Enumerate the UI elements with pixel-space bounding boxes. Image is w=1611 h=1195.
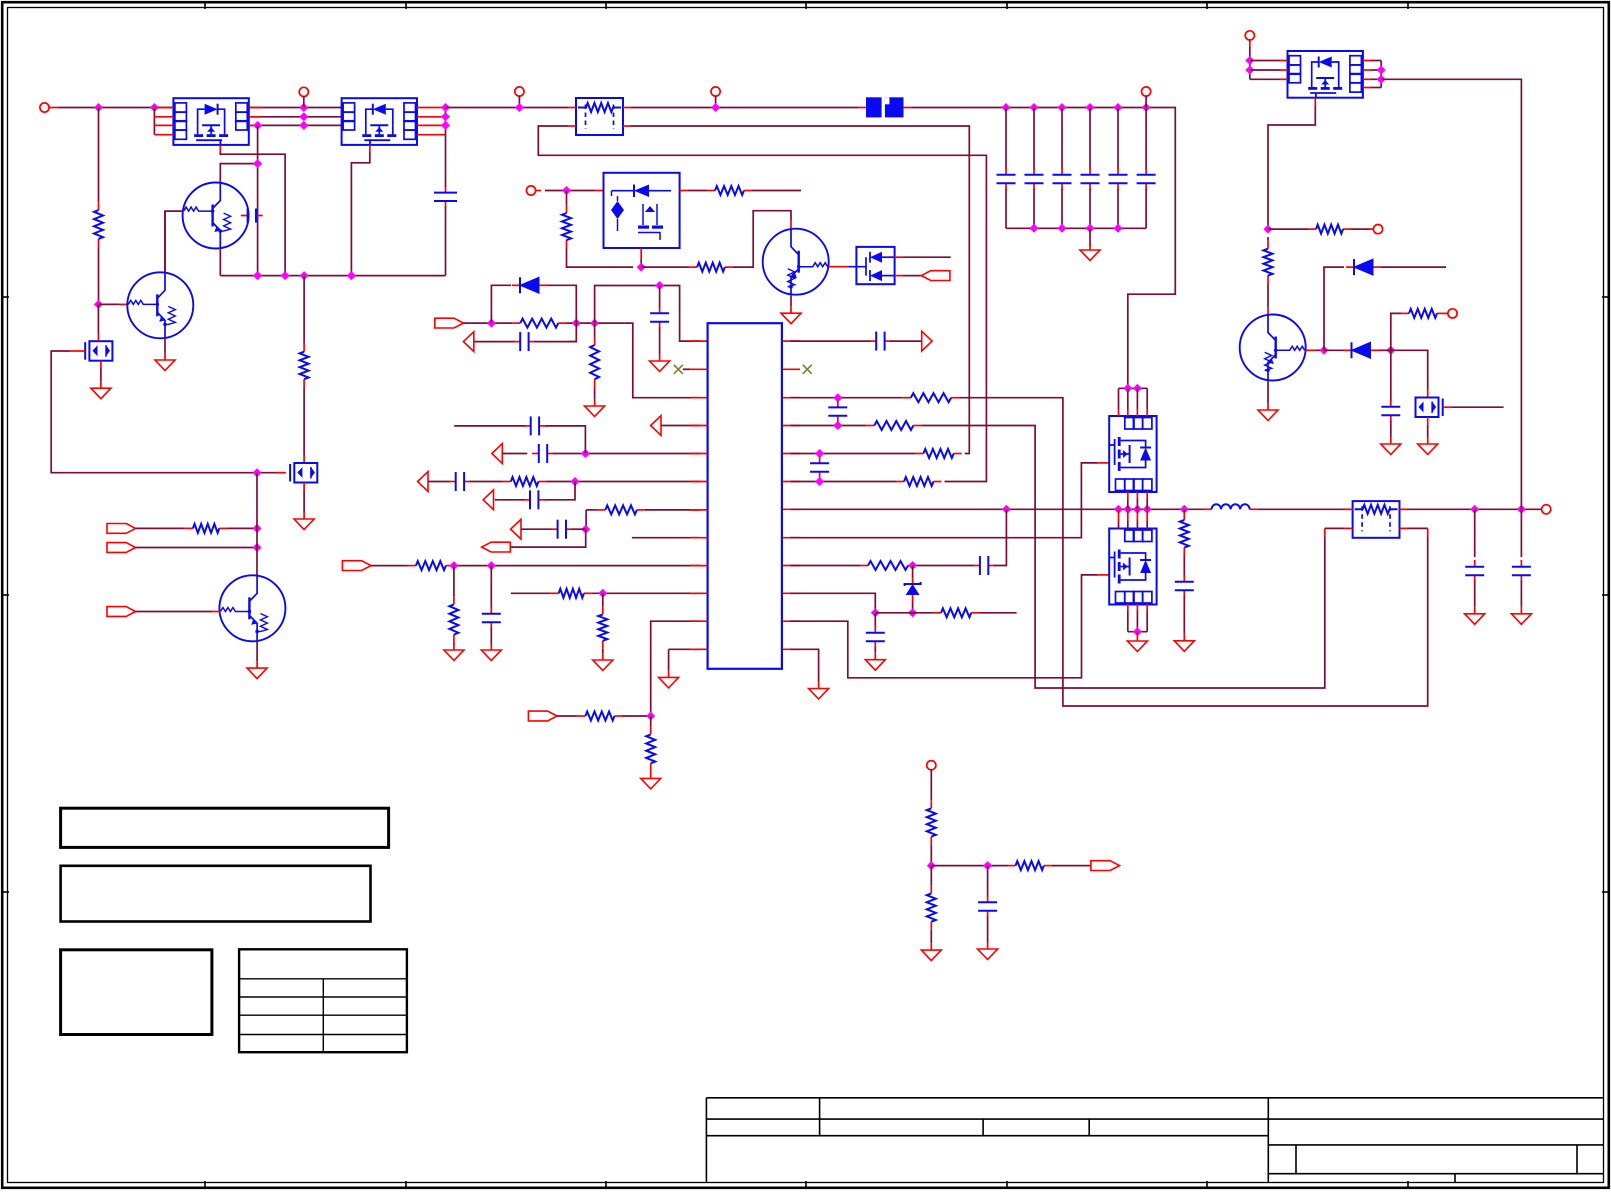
wire P5 to U3 xyxy=(545,190,596,192)
pin stub IC pin9R xyxy=(783,565,800,567)
ground C21 xyxy=(874,653,876,660)
capacitor C1 xyxy=(241,215,248,217)
ground R22 xyxy=(1183,634,1185,641)
revision box 2 xyxy=(61,866,371,922)
junction xyxy=(1002,505,1011,514)
wire P10 stem xyxy=(930,769,932,800)
capacitor C14 xyxy=(523,499,530,501)
pin stub U5 top xyxy=(1146,409,1148,416)
wire U6 top stub xyxy=(1118,521,1120,529)
capacitor C24 xyxy=(1520,560,1522,567)
wire pin3R xyxy=(791,397,903,399)
resistor R17 xyxy=(866,425,874,427)
tag VIN_SENSE xyxy=(435,318,464,328)
diode D4 xyxy=(512,284,520,286)
junction xyxy=(1142,103,1151,112)
capacitor C15 xyxy=(551,528,558,530)
wire R14 gnd lead xyxy=(602,649,604,653)
resistor R27 xyxy=(1008,865,1016,867)
ground Q2 xyxy=(790,306,792,313)
junction xyxy=(441,112,450,121)
capacitor C10 xyxy=(659,307,661,314)
wire R20 to cap xyxy=(916,565,974,567)
junction xyxy=(515,103,524,112)
wire Q6 drain xyxy=(97,304,99,334)
junction xyxy=(1114,103,1123,112)
wire R28 branch xyxy=(930,866,932,886)
ground Q3 xyxy=(1267,403,1269,410)
junction xyxy=(253,468,262,477)
wire C24 gnd lead xyxy=(1520,581,1522,607)
wire U7 left stub xyxy=(1250,69,1280,71)
ground Q4 xyxy=(164,353,166,360)
wire node down 547 xyxy=(511,529,586,547)
transformer T1 xyxy=(576,98,623,135)
wire C10 bottom lead xyxy=(659,328,661,355)
junction xyxy=(1264,225,1273,234)
junction xyxy=(927,861,936,870)
junction xyxy=(1123,505,1132,514)
pin stub IC pin10R xyxy=(783,592,800,594)
arrow AGND4 xyxy=(418,472,428,492)
wire U1-U2 d3 xyxy=(249,124,342,126)
wire C9 right xyxy=(534,341,576,343)
wire T2 lb corner xyxy=(1325,527,1345,529)
pin stub U7 right xyxy=(1363,60,1371,62)
wire U6 bottom stub xyxy=(1127,611,1129,632)
wire cap bank gnd stem xyxy=(1089,228,1091,246)
capacitor C17 xyxy=(869,340,876,342)
capacitor C18 xyxy=(837,401,839,408)
terminal P4 xyxy=(1142,87,1151,96)
arrow AGND2 xyxy=(651,416,661,436)
terminal P3 xyxy=(515,87,524,96)
wire U1 left pin bus xyxy=(153,108,155,135)
capacitor C16 xyxy=(490,607,492,614)
pin stub IC pin3L xyxy=(690,397,707,399)
transistor Q1 xyxy=(183,183,249,249)
wire R24 top lead xyxy=(1267,237,1269,241)
junction xyxy=(253,271,262,280)
wire D5 out xyxy=(1381,266,1446,268)
junction xyxy=(571,477,580,486)
wire Q8 source xyxy=(1427,425,1429,437)
mosfet module U2 xyxy=(342,98,417,145)
wire U1 gate rail down xyxy=(303,276,305,344)
wire Q3 base to dot xyxy=(1316,349,1324,351)
junction xyxy=(1143,505,1152,514)
ground IC right xyxy=(818,682,820,689)
pin stub T2 rb xyxy=(1427,528,1429,536)
junction xyxy=(833,393,842,402)
wire branch down 529 xyxy=(585,510,587,529)
wire R28 gnd lead xyxy=(930,930,932,943)
junction xyxy=(253,524,262,533)
wire U5 bottom stub xyxy=(1146,499,1148,509)
wire R12 branch xyxy=(453,566,455,597)
pin stub U1 r1 xyxy=(249,107,262,109)
capacitor C11 xyxy=(532,453,539,455)
junction xyxy=(487,319,496,328)
pin stub Q3 base xyxy=(1306,349,1316,351)
tag CTL xyxy=(107,607,136,617)
pin stub T2 rt xyxy=(1400,508,1408,510)
capacitor C6 xyxy=(1089,168,1091,175)
wire Q4 base xyxy=(98,303,119,305)
junction xyxy=(871,608,880,617)
dual diode D3 xyxy=(856,247,894,284)
junction xyxy=(598,589,607,598)
wire U7 left stub xyxy=(1250,78,1280,80)
wire U6 top stub xyxy=(1127,521,1129,529)
terminal P5 xyxy=(526,186,535,195)
ground cap bank xyxy=(1089,243,1091,250)
wire Q1 base to Q4 xyxy=(164,211,166,252)
wire pin9R xyxy=(791,565,861,567)
pin stub U7 left xyxy=(1280,60,1288,62)
pin stub U7 right xyxy=(1363,87,1371,89)
resistor R9 xyxy=(503,481,511,483)
wire Q7 emitter xyxy=(256,642,258,662)
pin stub U6 gate xyxy=(1097,574,1109,576)
wire C4 top lead xyxy=(1033,108,1035,170)
capacitor C23 xyxy=(1474,560,1476,567)
junction xyxy=(646,712,655,721)
junction xyxy=(347,271,356,280)
pin stub Q6 source xyxy=(100,361,102,368)
wire C20 corner up xyxy=(994,509,1006,565)
wire R17 route xyxy=(921,426,1325,689)
wire C13 to R9 xyxy=(470,481,503,483)
wire U5 bottom stub xyxy=(1136,499,1138,509)
output terminal P8 xyxy=(1542,505,1551,514)
pin stub U1 gate xyxy=(219,145,221,152)
ground C25 xyxy=(1390,437,1392,444)
pin stub T1 rb xyxy=(623,125,631,127)
pin stub U7 right xyxy=(1363,69,1371,71)
capacitor C19 xyxy=(819,457,821,464)
junction xyxy=(1058,224,1067,233)
wire P3b stem xyxy=(715,96,717,108)
wire row323 b xyxy=(566,322,624,324)
resistor R20 xyxy=(860,565,868,567)
mosfet module U6 xyxy=(1109,529,1156,605)
capacitor C5 xyxy=(1061,168,1063,175)
pin stub Q3 collector xyxy=(1267,307,1269,315)
pin stub IC pin9L xyxy=(690,565,707,567)
pin stub Q5 source xyxy=(303,483,305,491)
pin stub U1 p3 xyxy=(154,124,173,126)
wire Q1 base xyxy=(165,211,183,273)
wire C10 top lead xyxy=(659,286,661,308)
wire R4 top xyxy=(566,191,568,206)
pin stub Q6 drain xyxy=(97,334,99,341)
wire C21 top lead xyxy=(874,613,876,627)
wire pin6R xyxy=(791,481,897,483)
wire pin12R gnd xyxy=(791,649,819,681)
wire Q7 collector rail xyxy=(256,473,258,576)
junction xyxy=(908,608,917,617)
wire tag row2 xyxy=(136,547,257,549)
wire row267 to Q2 xyxy=(733,211,791,267)
wire C16 gnd lead xyxy=(490,628,492,645)
pin stub U1 p1 xyxy=(157,107,173,109)
junction xyxy=(449,561,458,570)
pin stub IC pin4R xyxy=(783,425,800,427)
pin stub Q8 drain xyxy=(1427,389,1429,397)
ground R28 xyxy=(930,943,932,950)
pin stub IC pin2L xyxy=(690,368,707,370)
wire P6 stem xyxy=(1249,47,1251,79)
junction xyxy=(299,121,308,130)
fuse F1 xyxy=(866,97,882,117)
wire rail T1 to fuse xyxy=(631,107,858,109)
wire P3 stem xyxy=(518,96,520,108)
pin stub IC pin2R xyxy=(783,368,801,370)
wire U5 top stub xyxy=(1146,388,1148,409)
junction xyxy=(562,186,571,195)
ground Q6 xyxy=(100,381,102,388)
pin stub IC pin11L xyxy=(690,620,707,622)
junction xyxy=(590,319,599,328)
wire R12 gnd lead xyxy=(453,643,455,645)
pin stub U5 bottom xyxy=(1127,492,1129,499)
pin stub U7 left xyxy=(1280,78,1288,80)
pin stub U1 r2 xyxy=(249,116,262,118)
junction xyxy=(1245,66,1254,75)
wire row510 corner xyxy=(586,509,597,511)
junction xyxy=(1245,56,1254,65)
mosfet module U3 xyxy=(604,173,680,248)
pin stub IC pin5R xyxy=(783,453,800,455)
junction xyxy=(253,159,262,168)
pin stub Q7 base xyxy=(212,611,220,613)
wire R2 to Q5 xyxy=(303,387,305,455)
ground C23 xyxy=(1474,607,1476,614)
diode D6 xyxy=(1344,349,1352,351)
wire R16 route xyxy=(959,398,1428,706)
wire U7 right bus xyxy=(1380,61,1382,88)
junction xyxy=(1002,103,1011,112)
wire C22 gnd lead xyxy=(1183,596,1185,634)
arrow VREF xyxy=(922,331,932,351)
wire U3 bottom to row xyxy=(640,259,642,267)
wire left divider mid xyxy=(98,247,100,305)
junction xyxy=(581,525,590,534)
ground R15b xyxy=(650,771,652,778)
wire U5 top stub xyxy=(1127,388,1129,409)
pin stub IC pin8R xyxy=(783,537,800,539)
pin stub IC pin1L xyxy=(690,340,707,342)
junction xyxy=(1386,346,1395,355)
arrow AGND6 xyxy=(511,519,521,539)
junction xyxy=(815,477,824,486)
ground R8 xyxy=(594,399,596,406)
capacitor C22 xyxy=(1183,575,1185,582)
wire main rail left xyxy=(59,107,174,109)
resistor R1 xyxy=(98,202,100,210)
wire P2 stem xyxy=(303,96,305,108)
wire node C up-over xyxy=(595,286,700,342)
capacitor C26 xyxy=(987,896,989,903)
wire dot to D6 xyxy=(1324,349,1344,351)
resistor R2 xyxy=(303,344,305,352)
junction xyxy=(1114,224,1123,233)
wire U1 drain sense vertical xyxy=(257,125,259,275)
terminal P3b xyxy=(711,87,720,96)
wire U2 right pin bus xyxy=(445,108,447,135)
wire C5 bottom lead xyxy=(1061,189,1063,228)
junction xyxy=(253,121,262,130)
wire Q3 emitter xyxy=(1267,381,1269,403)
resistor R13 xyxy=(551,592,559,594)
pin stub Q2 collector xyxy=(790,221,792,229)
mosfet Q5 xyxy=(294,463,317,483)
ground U6 xyxy=(1136,634,1138,641)
wire R22 to C22 xyxy=(1183,556,1185,576)
junction xyxy=(711,103,720,112)
wire C26 gnd lead xyxy=(987,917,989,943)
pin stub U6 top xyxy=(1118,509,1120,521)
pin stub T2 lt xyxy=(1345,508,1353,510)
wire R6 right xyxy=(752,190,801,192)
junction xyxy=(1180,505,1189,514)
wire branch 499 down xyxy=(544,482,575,500)
pin stub IC pin12R xyxy=(783,648,800,650)
pin stub Q8 gate xyxy=(1443,406,1452,408)
pin stub U7 gate xyxy=(1314,98,1316,106)
wire U1 gate route xyxy=(220,152,285,276)
resistor R18 xyxy=(915,453,923,455)
wire D3 top out xyxy=(903,256,951,258)
wire row to tag xyxy=(1052,865,1091,867)
pin stub D3 r1 xyxy=(895,256,903,258)
wire U2 gate route xyxy=(351,152,369,276)
pin stub U5 top xyxy=(1127,409,1129,416)
wire Q4 emitter xyxy=(164,338,166,353)
wire U7 gate route xyxy=(1268,106,1315,229)
junction xyxy=(983,861,992,870)
ground R14 xyxy=(602,653,604,660)
mosfet Q6 xyxy=(89,341,112,361)
tag PG xyxy=(107,543,136,553)
wire U7 right stub xyxy=(1371,87,1381,89)
ground C16 xyxy=(490,643,492,650)
pin stub T1 out xyxy=(623,107,631,109)
pin stub IC pin1R xyxy=(783,340,800,342)
wire U1-U2 d1 xyxy=(249,107,342,109)
junction xyxy=(441,103,450,112)
pin stub Q5 drain xyxy=(303,455,305,463)
pin stub P6 xyxy=(1249,39,1251,47)
wire U7 right stub xyxy=(1371,78,1381,80)
pin stub T1 in xyxy=(568,107,576,109)
terminal P2 xyxy=(299,87,308,96)
inductor L1 xyxy=(1204,508,1212,510)
wire tag row1b xyxy=(227,527,257,529)
wire node C down xyxy=(594,323,596,337)
wire U7 to output rail xyxy=(1381,79,1521,509)
capacitor C9 xyxy=(513,341,520,343)
wire cap bank bottom rail xyxy=(1006,227,1146,229)
junction xyxy=(253,543,262,552)
resistor R25 xyxy=(1401,312,1409,314)
terminal P7 xyxy=(1373,225,1382,234)
wire IC pin12L gnd xyxy=(669,648,700,650)
junction xyxy=(1377,66,1386,75)
junction xyxy=(1377,75,1386,84)
ground R12 xyxy=(453,643,455,650)
wire R22 top xyxy=(1183,509,1185,512)
wire C23 lead xyxy=(1474,509,1476,557)
pin stub IC pin6R xyxy=(783,481,800,483)
wire arrow to C13 xyxy=(428,481,450,483)
junction xyxy=(94,300,103,309)
pin stub U5 top xyxy=(1118,409,1120,416)
wire C16 branch xyxy=(490,566,492,608)
wire C8 top lead xyxy=(1145,108,1147,170)
junction xyxy=(299,103,308,112)
wire row323 to IC xyxy=(625,323,700,398)
junction xyxy=(815,449,824,458)
junction xyxy=(1133,505,1142,514)
ground Q5 xyxy=(303,512,305,519)
wire R10 to IC xyxy=(645,509,700,511)
transformer T2 xyxy=(1353,501,1400,538)
wire L1 to T2 xyxy=(1258,508,1353,510)
junction xyxy=(572,319,581,328)
wire P4 stem xyxy=(1145,96,1147,108)
resistor R15 xyxy=(577,715,585,717)
nc mark right xyxy=(803,365,812,374)
wire rail caps xyxy=(912,108,1176,389)
capacitor C7 xyxy=(1117,168,1119,175)
wire U5 top stub xyxy=(1118,388,1120,409)
pin stub Q5 gate xyxy=(277,472,286,474)
ground IC left xyxy=(668,670,670,677)
pin stub U5 bottom xyxy=(1146,492,1148,499)
wire C11 to IC xyxy=(553,453,700,455)
wire U6 bottom stub xyxy=(1136,611,1138,632)
wire Q4 collector xyxy=(164,252,166,272)
pin stub IC pin8L xyxy=(690,537,707,539)
resistor R5 xyxy=(689,266,697,268)
junction xyxy=(1517,505,1526,514)
arrow AGND1 xyxy=(463,332,473,352)
wire R4 bottom xyxy=(567,248,634,267)
junction xyxy=(1114,505,1123,514)
wire C3 bottom lead xyxy=(1005,189,1007,228)
junction xyxy=(1320,346,1329,355)
wire U1-U2 d2 xyxy=(249,116,342,118)
pin stub U6 bottom xyxy=(1146,604,1148,611)
wire Q1 collector xyxy=(220,164,257,183)
wire C2 top lead xyxy=(445,135,447,187)
pin stub U7 right xyxy=(1363,78,1371,80)
capacitor C21 xyxy=(874,626,876,633)
pin stub IC pin7R xyxy=(783,508,800,510)
wire U6 source bus xyxy=(1128,631,1147,633)
wire C17 to arrow xyxy=(890,340,921,342)
wire D3 bottom out xyxy=(903,275,921,277)
wire zener top lead xyxy=(912,566,914,578)
junction xyxy=(1086,103,1095,112)
junction xyxy=(281,271,290,280)
wire T1 left-bottom route xyxy=(538,126,986,482)
pin stub U7 left xyxy=(1280,69,1288,71)
wire pin11R gate U6 xyxy=(791,575,1098,678)
pin stub Q4 base xyxy=(119,303,128,305)
